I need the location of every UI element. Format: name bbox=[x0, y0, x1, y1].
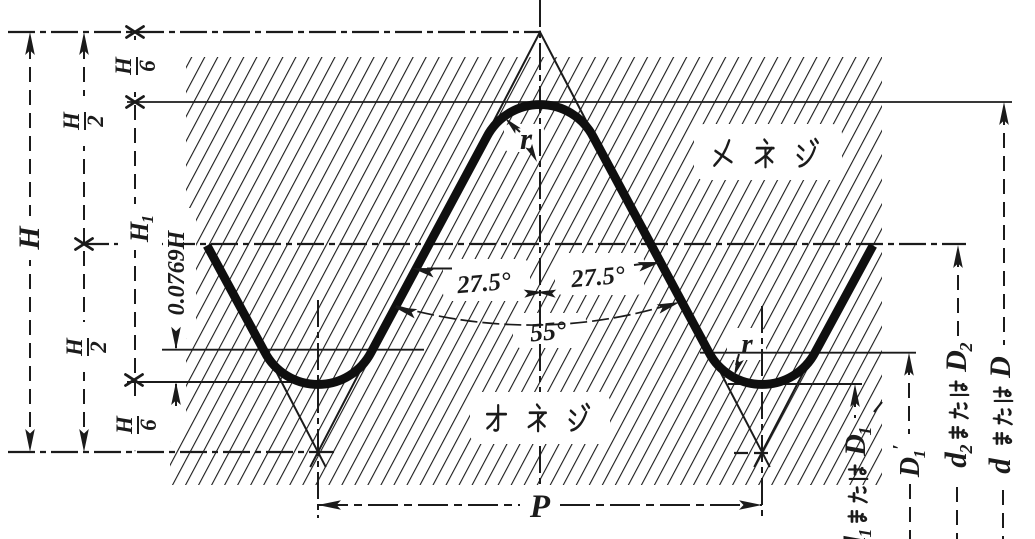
svg-text:1: 1 bbox=[855, 427, 875, 436]
svg-text:′: ′ bbox=[889, 444, 911, 450]
label onegi (external thread) bbox=[487, 405, 506, 430]
label H1 bbox=[125, 215, 157, 243]
label d mataha D bbox=[982, 356, 1017, 474]
angle 27.5 deg right bbox=[634, 264, 646, 266]
svg-text:0.0769H: 0.0769H bbox=[164, 229, 190, 315]
svg-text:6: 6 bbox=[135, 60, 160, 72]
radius r at right root bbox=[736, 354, 739, 365]
svg-text:55°: 55° bbox=[529, 315, 568, 347]
svg-text:27.5°: 27.5° bbox=[455, 268, 512, 300]
radius r at crest bbox=[508, 121, 520, 132]
label 0.0769H bbox=[164, 229, 190, 315]
svg-text:2: 2 bbox=[86, 341, 111, 354]
dimension 0.0769H bbox=[175, 333, 177, 348]
dimension H/2 column bbox=[83, 44, 85, 442]
label menegi (internal thread) bbox=[714, 140, 731, 165]
svg-text:D: D bbox=[895, 457, 926, 478]
dimension d2-or-D2 column bbox=[953, 245, 963, 268]
root tangent line right (D1-prime level) bbox=[700, 352, 916, 354]
label D1 prime bbox=[889, 444, 929, 478]
svg-text:H: H bbox=[13, 225, 46, 251]
svg-text:D: D bbox=[839, 434, 872, 457]
dimension D1-prime column bbox=[904, 353, 914, 376]
left root centre line bbox=[317, 300, 319, 518]
svg-text:H: H bbox=[125, 221, 154, 243]
label H/2 lower bbox=[62, 337, 111, 357]
svg-text:H: H bbox=[112, 415, 137, 435]
svg-text:D: D bbox=[984, 356, 1017, 379]
thread axis centre line bbox=[539, 0, 541, 392]
svg-text:2: 2 bbox=[956, 343, 976, 353]
dimension P bbox=[318, 500, 341, 510]
label d1 mataha D1 bbox=[837, 427, 875, 539]
svg-text:1: 1 bbox=[855, 529, 875, 538]
svg-text:D: D bbox=[940, 350, 973, 373]
root bottom line right (D1 level) bbox=[728, 383, 862, 385]
bottom sharp-root line right stub bbox=[734, 452, 770, 454]
label H/2 upper bbox=[59, 111, 108, 131]
thread profile (thick flank/crest/root outline) bbox=[207, 105, 873, 385]
svg-text:r: r bbox=[520, 121, 533, 156]
svg-text:2: 2 bbox=[956, 445, 976, 455]
dimension H column bbox=[29, 44, 31, 442]
angle 27.5 deg left bbox=[427, 268, 452, 270]
dimension d-or-D column bbox=[999, 102, 1009, 125]
svg-text:d: d bbox=[982, 458, 1017, 474]
dimension H/6 + H1 column bbox=[134, 36, 136, 446]
root bottom line left bbox=[127, 381, 344, 383]
sharp V at left root bbox=[265, 350, 371, 467]
svg-text:27.5°: 27.5° bbox=[569, 262, 626, 294]
crest flat line (d/D level) bbox=[127, 101, 1012, 103]
svg-text:1: 1 bbox=[138, 215, 157, 224]
bottom sharp-root line (H bottom) bbox=[8, 451, 334, 453]
top sharp-crest line (H top) bbox=[8, 31, 541, 33]
svg-text:1: 1 bbox=[910, 450, 929, 459]
dimension d1-or-D1 column bbox=[850, 384, 860, 407]
label H/6 lower bbox=[112, 415, 161, 435]
svg-text:2: 2 bbox=[83, 115, 108, 128]
sharp V at crest bbox=[487, 32, 593, 134]
label H bbox=[13, 225, 46, 251]
label d2 mataha D2 bbox=[938, 343, 976, 468]
sharp V at right root bbox=[709, 350, 815, 467]
svg-text:H: H bbox=[62, 337, 87, 357]
hatching (nut and bolt section lines) bbox=[170, 57, 882, 485]
svg-text:6: 6 bbox=[136, 419, 161, 431]
label H/6 upper bbox=[111, 56, 160, 76]
svg-text:r: r bbox=[741, 328, 753, 360]
svg-text:H: H bbox=[59, 111, 84, 131]
root tangent line left (flank end level) bbox=[162, 349, 424, 351]
right root centre line bbox=[761, 306, 763, 518]
pitch line (d2/D2 level) bbox=[82, 243, 966, 245]
stray tick near D1 bbox=[874, 402, 882, 412]
angle 55 deg arc bbox=[396, 302, 678, 325]
svg-text:P: P bbox=[529, 489, 551, 525]
label halos bbox=[694, 124, 842, 180]
svg-text:H: H bbox=[111, 56, 136, 76]
